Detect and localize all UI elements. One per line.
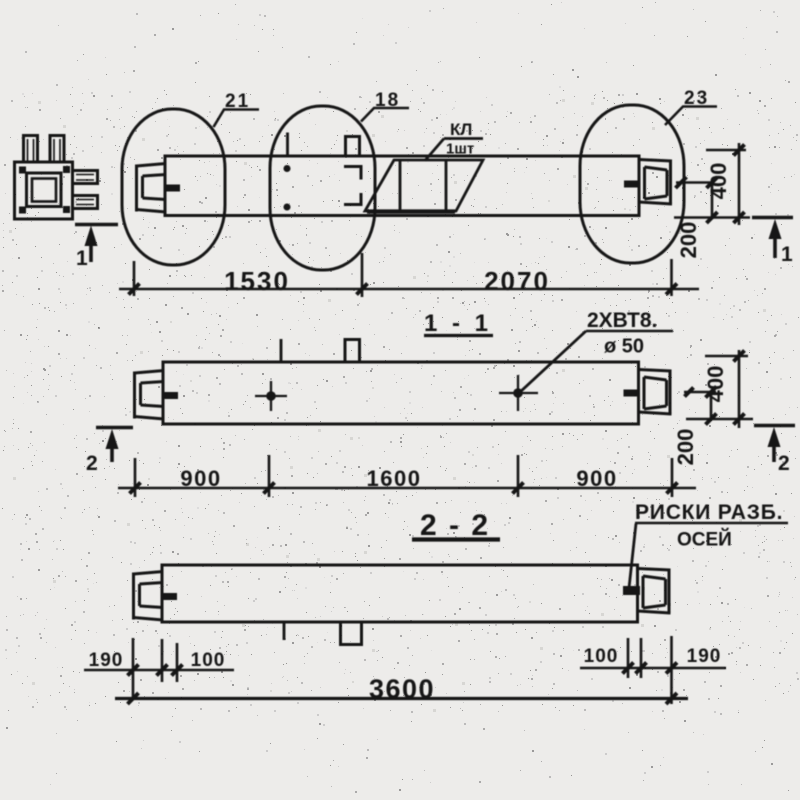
svg-text:2070: 2070: [484, 266, 550, 296]
dim line right 100/190: [580, 667, 726, 670]
svg-text:900: 900: [576, 466, 617, 491]
2-2: right end bracket: [638, 569, 671, 614]
1-1 right: 400 extension top: [705, 355, 748, 358]
1-1: top tab: [345, 340, 360, 363]
2-2: bottom tick: [283, 622, 286, 640]
label КЛ / 1шт with leader: [425, 120, 483, 161]
embedded plate КЛ: inner verticals: [400, 161, 446, 210]
detail oval 23: [580, 105, 684, 263]
end view: right tab 2: [73, 196, 98, 209]
svg-text:1: 1: [76, 247, 88, 270]
plan: top tab (in oval 18): [346, 137, 360, 157]
svg-text:2: 2: [86, 452, 98, 475]
svg-text:ø 50: ø 50: [604, 336, 644, 358]
beam outline (section 1-1): [163, 362, 639, 424]
plan right: 200 dim line: [711, 183, 714, 218]
svg-text:КЛ: КЛ: [450, 120, 472, 139]
1-1: strand cross mark left: [255, 381, 287, 411]
1-1 right: mid extension: [684, 391, 716, 394]
detail oval 21: [122, 109, 225, 265]
1-1: left end bracket: [135, 371, 179, 420]
dim text 900 right: [576, 466, 617, 491]
dim text 100 left: [191, 650, 226, 671]
svg-text:400: 400: [706, 163, 731, 200]
beam outline (plan): [165, 156, 639, 216]
dim text 100 right: [584, 646, 619, 667]
title 2-2: [412, 509, 500, 542]
extension line middle: [361, 253, 364, 297]
section marker 1 left: cut line: [75, 223, 118, 226]
1-1 right: text 200 (rotated): [673, 429, 698, 466]
2-2: left end bracket: [134, 572, 178, 621]
plan right: bottom extension: [674, 216, 750, 219]
plan right: 400 extension top: [706, 149, 746, 152]
svg-text:1600: 1600: [367, 466, 422, 491]
svg-text:190: 190: [89, 650, 124, 671]
1-1 right: text 400 (rotated): [703, 366, 728, 403]
label РИСКИ РАЗБ. ОСЕЙ with leader: [629, 501, 788, 588]
1-1: top tick: [280, 339, 283, 362]
svg-text:1: 1: [781, 243, 793, 266]
1-1: right end bracket: [624, 370, 672, 415]
svg-text:200: 200: [676, 222, 701, 259]
2-2: риска mark (black): [623, 586, 640, 595]
section marker 2 right: cut line: [754, 424, 795, 427]
extension line left (1530): [133, 261, 136, 296]
end view: inner double square: [27, 173, 62, 207]
dim text 190 right: [687, 646, 722, 667]
svg-text:2: 2: [778, 452, 790, 475]
section marker 1 left: arrow: [85, 226, 98, 263]
dim text 3600: [369, 674, 435, 704]
section marker 1 right: arrow: [769, 219, 782, 258]
svg-text:2ХВТ8.: 2ХВТ8.: [587, 309, 657, 332]
end view: top tab 1: [24, 136, 38, 163]
plan: lifting loop tick above beam (in oval 18): [286, 133, 289, 158]
end view: corner anchor dots: [19, 166, 70, 214]
extension lines 900/1600/900: [135, 455, 672, 497]
1-1: strand cross mark right: [499, 375, 538, 411]
dim ticks 1530/2070: [129, 284, 678, 295]
1-1 right: dim ticks: [685, 351, 745, 425]
label 2ХВТ8 / ø50 with leader: [519, 309, 673, 393]
section marker 2 left: label 2: [86, 452, 98, 475]
dimension line 1530 / 2070: [119, 288, 699, 291]
plan right: 400 dim line: [738, 143, 741, 225]
section marker 1 right: label 1: [781, 243, 793, 266]
dimension line 900/1600/900: [118, 487, 696, 490]
extension line right: [670, 259, 673, 296]
plan right: mid extension at stub level: [676, 181, 714, 184]
dim ticks 900/1600/900: [130, 483, 678, 494]
dim line left 190/100: [84, 669, 234, 672]
extension lines left 190/100: [133, 638, 177, 700]
end view: top tab 2: [50, 136, 64, 163]
section marker 1 left: label 1: [76, 247, 88, 270]
detail oval 18: [270, 106, 375, 270]
dim text 1600: [367, 466, 422, 491]
dim ticks right: [623, 663, 678, 674]
plan right: dim ticks: [676, 145, 745, 224]
label 21 with leader: [214, 91, 260, 127]
svg-text:3600: 3600: [369, 674, 435, 704]
end view: outer plate square: [15, 162, 73, 219]
plan right: text 200 (rotated): [676, 222, 701, 259]
dimension line 3600: [115, 697, 688, 700]
label 18 with leader: [361, 90, 409, 122]
svg-text:190: 190: [687, 646, 722, 667]
1-1 right: 200 dim line: [710, 392, 713, 419]
plan: left end bracket: [137, 164, 181, 213]
dim text 2070: [484, 266, 550, 296]
section marker 2 right: arrow: [768, 427, 781, 462]
svg-text:400: 400: [703, 366, 728, 403]
plan: right end bracket: [624, 160, 672, 205]
dim ticks 3600: [128, 693, 678, 704]
1-1 right: 400 dim line: [738, 350, 741, 428]
label 23 with leader: [665, 88, 717, 125]
dim ticks left: [128, 665, 183, 676]
dim text 900 left: [180, 466, 221, 491]
2-2: bottom tab: [341, 622, 362, 645]
extension lines right 100/190: [628, 636, 672, 704]
dim text 190 left: [89, 650, 124, 671]
svg-text:100: 100: [191, 650, 226, 671]
section marker 2 right: label 2: [778, 452, 790, 475]
beam outline (section 2-2): [162, 565, 638, 622]
svg-text:1530: 1530: [224, 266, 290, 296]
embedded plate КЛ: parallelogram: [365, 160, 483, 211]
svg-text:200: 200: [673, 429, 698, 466]
plan right: text 400 (rotated): [706, 163, 731, 200]
1-1 right: bottom extension: [686, 418, 753, 421]
plan: C-bracket right of oval 18: [344, 167, 361, 205]
svg-text:1 - 1: 1 - 1: [424, 310, 492, 337]
svg-text:2 - 2: 2 - 2: [420, 509, 490, 542]
end view: right tab 1: [73, 171, 98, 184]
dim text 1530: [224, 266, 290, 296]
svg-text:ОСЕЙ: ОСЕЙ: [677, 529, 732, 551]
section marker 2 left: arrow: [106, 429, 119, 462]
svg-text:РИСКИ РАЗБ.: РИСКИ РАЗБ.: [635, 501, 783, 524]
svg-text:100: 100: [584, 646, 619, 667]
embedded plate КЛ: thick bottom edge: [367, 209, 455, 213]
plan: two anchor dots (in oval 18): [284, 165, 291, 211]
section marker 2 left: cut line: [96, 426, 133, 429]
title 1-1: [424, 310, 493, 337]
svg-text:900: 900: [180, 466, 221, 491]
section marker 1 right: cut line: [752, 216, 793, 220]
